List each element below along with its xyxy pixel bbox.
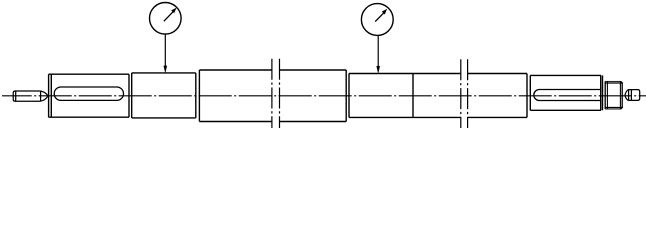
shaft section D (broken) [349,74,527,118]
centerline (shaft axis, dash-dot) [2,95,646,97]
dial indicator 1 body [150,2,182,34]
threaded end block [605,81,623,109]
right center cone [625,90,629,101]
left center (fixture) stub [13,91,40,101]
shaft section A (left journal with keyway) [49,74,129,117]
keyway A (stadium slot) [54,87,123,100]
shaft section E (right journal with open keyway) [530,75,602,110]
shaft section C (large middle, broken) [199,70,346,122]
dial indicator 2 stem [377,35,379,67]
dial indicator 2 body [361,4,393,36]
left center cone [41,91,48,101]
shaft section B [132,73,196,118]
dial indicator 2 needle [375,13,384,22]
break lines pair 2 [461,59,468,128]
dial indicator 1 arrow [164,66,168,74]
dial indicator 1 stem [164,34,166,67]
keyway E (open-ended slot) [534,90,601,101]
dial indicator 2 arrow [376,66,380,74]
right center stub [629,90,640,101]
break lines pair 1 [272,59,280,128]
dial indicator 1 needle [164,12,173,22]
